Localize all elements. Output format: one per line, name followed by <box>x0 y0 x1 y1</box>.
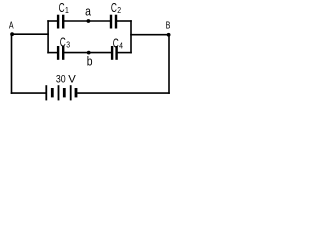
battery 30V cell 1 short plate <box>51 88 54 97</box>
node a junction dot <box>87 19 91 23</box>
wire node A to left vertical <box>12 33 49 35</box>
node b junction dot <box>87 51 91 55</box>
node B junction dot <box>167 33 171 37</box>
capacitor C4 plates <box>111 46 113 60</box>
battery 30V cell 3 long plate <box>70 85 72 100</box>
node A junction dot <box>10 32 14 36</box>
svg-text:3: 3 <box>66 40 70 50</box>
wire top branch left segment <box>47 20 57 22</box>
wire right vertical to node B <box>130 34 168 36</box>
wire top branch middle segment (a node run) <box>64 20 110 22</box>
wire top branch right segment <box>117 20 132 22</box>
battery 30V cell 3 short plate <box>75 88 78 97</box>
wire bottom branch right segment <box>117 52 132 54</box>
wire outer left vertical <box>11 34 13 94</box>
wire bottom branch left segment <box>47 52 57 54</box>
capacitor C3 plates <box>57 46 59 60</box>
wire bottom branch middle segment (b node run) <box>64 52 111 54</box>
svg-text:a: a <box>85 5 91 19</box>
wire outer bottom right (from battery) <box>77 92 170 94</box>
svg-text:C: C <box>60 36 66 50</box>
wire left inner vertical <box>47 20 49 53</box>
battery 30V cell 2 long plate <box>58 85 60 100</box>
wire outer right vertical <box>168 35 170 94</box>
wire right inner vertical <box>130 20 132 53</box>
battery 30V cell 1 long plate <box>45 85 47 100</box>
battery 30V cell 2 short plate <box>63 88 66 97</box>
svg-text:2: 2 <box>117 5 121 15</box>
svg-text:B: B <box>166 19 171 30</box>
svg-text:b: b <box>87 54 93 68</box>
svg-text:30: 30 <box>56 73 66 85</box>
svg-text:V: V <box>68 73 76 85</box>
capacitor C2 plates <box>110 15 112 29</box>
svg-text:A: A <box>9 19 14 30</box>
svg-text:C: C <box>113 37 119 51</box>
svg-text:1: 1 <box>65 5 69 15</box>
capacitor C1 plates <box>57 15 59 29</box>
wire outer bottom left (to battery) <box>11 92 46 94</box>
svg-text:C: C <box>111 2 117 16</box>
svg-text:4: 4 <box>119 41 123 51</box>
svg-text:C: C <box>59 2 65 16</box>
